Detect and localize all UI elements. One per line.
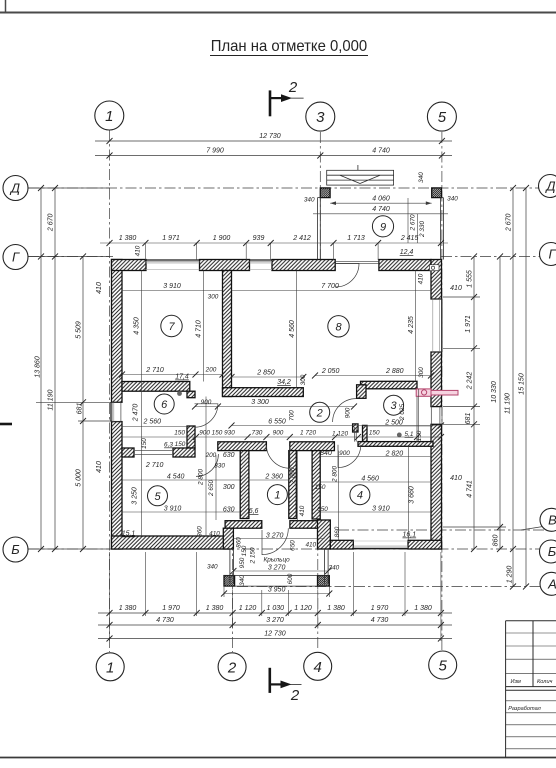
bay jog left xyxy=(223,528,233,549)
svg-text:300: 300 xyxy=(208,294,219,301)
svg-text:3 950: 3 950 xyxy=(268,587,286,594)
svg-text:6,3: 6,3 xyxy=(164,442,173,449)
svg-text:410: 410 xyxy=(96,461,103,473)
svg-text:900: 900 xyxy=(345,407,352,418)
svg-text:5: 5 xyxy=(439,658,448,675)
svg-text:200: 200 xyxy=(205,367,217,374)
svg-text:15,1: 15,1 xyxy=(122,531,136,538)
porch 4060 dim xyxy=(330,202,432,204)
svg-text:410: 410 xyxy=(418,273,425,284)
room8 dim row 2050-2880 xyxy=(315,375,431,377)
drain dot room3 xyxy=(397,433,402,438)
svg-text:840: 840 xyxy=(320,450,332,457)
leader for axis V right xyxy=(521,527,543,531)
svg-text:600: 600 xyxy=(287,573,294,584)
axis circle G right xyxy=(540,243,556,266)
room1 dim 2360 xyxy=(249,479,289,481)
svg-text:Д: Д xyxy=(9,181,20,196)
axis circle 5 top xyxy=(427,102,456,131)
hall bottom wall right segment xyxy=(290,442,335,451)
axis 2 vertical xyxy=(232,520,234,652)
bay wall right of door xyxy=(290,521,330,529)
svg-text:1 120: 1 120 xyxy=(294,605,312,612)
svg-text:681: 681 xyxy=(77,403,84,415)
svg-text:1 120: 1 120 xyxy=(239,605,257,612)
svg-text:2: 2 xyxy=(316,407,323,419)
axis 4 vertical xyxy=(317,520,319,651)
door hall to room6 xyxy=(195,404,218,427)
axis A horizontal xyxy=(237,586,545,588)
svg-text:7 700: 7 700 xyxy=(321,283,339,290)
svg-text:5 000: 5 000 xyxy=(76,469,83,487)
svg-text:3: 3 xyxy=(316,109,325,126)
svg-text:340: 340 xyxy=(418,172,425,183)
room7 dim 3910 xyxy=(122,290,223,292)
svg-text:1: 1 xyxy=(106,659,114,676)
svg-text:1 970: 1 970 xyxy=(371,605,389,612)
porch bottom dim 3950 xyxy=(224,593,329,595)
interior wall room6 right upper xyxy=(187,391,195,398)
bay wall left of door xyxy=(225,521,262,529)
svg-text:900: 900 xyxy=(273,430,284,437)
wall rooms 8|3 xyxy=(361,381,418,389)
door porch to room8 xyxy=(336,264,360,288)
svg-text:1 380: 1 380 xyxy=(414,605,432,612)
room8 dim 7700 xyxy=(232,290,432,292)
svg-text:630: 630 xyxy=(223,452,235,459)
vent box room8 corner xyxy=(430,265,440,271)
porch column top right xyxy=(432,188,442,198)
svg-text:Крыльцо: Крыльцо xyxy=(263,557,290,564)
svg-text:4 060: 4 060 xyxy=(372,196,390,203)
axis B horizontal xyxy=(28,548,545,550)
svg-text:200: 200 xyxy=(205,452,217,459)
outer wall right mid xyxy=(431,352,442,407)
svg-text:2 850: 2 850 xyxy=(256,370,275,377)
bay jog right xyxy=(318,520,331,549)
room1 dim 3270 xyxy=(233,538,324,540)
interior wall room6 right lower xyxy=(187,426,195,448)
svg-text:340: 340 xyxy=(447,196,458,203)
svg-text:3: 3 xyxy=(391,400,398,412)
shaft room3 right xyxy=(416,389,418,442)
drain dot room6 xyxy=(177,391,182,396)
svg-text:410: 410 xyxy=(209,531,220,538)
svg-text:150: 150 xyxy=(315,484,326,491)
room4 dim 3910 xyxy=(320,511,431,513)
svg-text:340: 340 xyxy=(329,565,340,572)
svg-text:1 970: 1 970 xyxy=(162,605,180,612)
svg-text:4 740: 4 740 xyxy=(372,148,390,155)
svg-text:7: 7 xyxy=(168,321,175,333)
svg-text:2 560: 2 560 xyxy=(143,419,162,426)
room3 left wall thin xyxy=(354,427,356,442)
svg-text:2 470: 2 470 xyxy=(133,404,140,423)
outer wall right lower xyxy=(431,424,442,549)
door hall to room1 xyxy=(266,445,289,468)
room4 left wall xyxy=(312,451,320,519)
outer wall top segment A xyxy=(112,260,147,271)
axis circle B left xyxy=(3,537,28,562)
extension lines bottom rows xyxy=(144,552,146,616)
svg-text:340: 340 xyxy=(207,564,218,571)
opening rooms 6|5 xyxy=(134,450,173,452)
porch right wall bottom xyxy=(324,549,326,584)
svg-text:300: 300 xyxy=(418,367,425,378)
svg-text:3 270: 3 270 xyxy=(268,565,286,572)
mid dim row 900 150 930 ... xyxy=(122,436,441,438)
room6 dim 2560 xyxy=(122,426,187,428)
extension lines top row xyxy=(144,243,146,260)
axis circle D left xyxy=(3,176,28,201)
svg-text:1 900: 1 900 xyxy=(213,235,231,242)
room3 vertical dim xyxy=(418,389,420,442)
window top wall 2 xyxy=(250,259,273,261)
svg-text:950: 950 xyxy=(239,557,246,568)
svg-text:11 190: 11 190 xyxy=(48,389,55,410)
room5 dim 3910 xyxy=(122,511,240,513)
svg-text:630: 630 xyxy=(223,507,235,514)
svg-text:900: 900 xyxy=(339,450,350,457)
svg-text:Г: Г xyxy=(548,247,556,262)
svg-text:12,4: 12,4 xyxy=(400,249,414,256)
svg-text:2 025: 2 025 xyxy=(399,404,406,421)
svg-text:2 710: 2 710 xyxy=(145,462,164,469)
svg-text:300: 300 xyxy=(300,374,307,385)
svg-text:4 741: 4 741 xyxy=(467,480,474,498)
svg-text:6 550: 6 550 xyxy=(268,419,286,426)
page left corner tick xyxy=(5,0,7,13)
room8 vertical dim 4235 xyxy=(415,271,417,382)
svg-text:340: 340 xyxy=(304,197,315,204)
interior wall rooms 7|6 xyxy=(122,382,190,392)
svg-text:3 270: 3 270 xyxy=(266,617,284,624)
window top wall 1 xyxy=(146,259,200,261)
svg-text:4 730: 4 730 xyxy=(371,617,389,624)
window right wall xyxy=(432,299,434,352)
outer wall left upper xyxy=(112,260,123,403)
axis circle 2 bottom xyxy=(218,653,246,681)
page bottom border xyxy=(0,757,556,759)
window bottom wall xyxy=(353,540,408,542)
svg-text:3 270: 3 270 xyxy=(266,533,284,540)
svg-text:Д: Д xyxy=(544,179,555,194)
outer wall top segment D xyxy=(379,260,431,271)
svg-text:2 330: 2 330 xyxy=(419,221,426,238)
svg-text:1: 1 xyxy=(105,108,113,125)
axis circle 3 top xyxy=(306,102,335,131)
axis circle A right xyxy=(540,572,556,595)
svg-text:2 800: 2 800 xyxy=(290,467,297,484)
svg-text:2 800: 2 800 xyxy=(332,466,339,483)
svg-text:11 190: 11 190 xyxy=(505,393,512,414)
porch post bottom left xyxy=(224,576,235,587)
svg-text:2 820: 2 820 xyxy=(385,451,404,458)
svg-text:2 050: 2 050 xyxy=(321,368,340,375)
dim line 12730 top xyxy=(95,140,452,142)
dim line 7990 / 4740 top xyxy=(95,155,452,157)
outer wall right upper xyxy=(431,260,442,300)
hall dim 6550 xyxy=(232,425,442,427)
dim row2 bottom xyxy=(98,624,452,626)
axis circle 5 bottom xyxy=(429,651,457,679)
svg-text:4 540: 4 540 xyxy=(167,474,185,481)
porch post bottom right xyxy=(318,576,330,587)
porch bottom edge xyxy=(224,585,329,587)
outer wall bottom right segment 1 xyxy=(330,540,353,549)
svg-text:1: 1 xyxy=(274,490,280,502)
svg-text:Г: Г xyxy=(12,250,20,265)
room vertical dim 4710 xyxy=(203,271,205,382)
room1 left wall xyxy=(240,451,249,519)
svg-text:17,4: 17,4 xyxy=(175,374,189,381)
svg-text:1 290: 1 290 xyxy=(507,566,514,584)
hall bottom wall left segment xyxy=(218,442,267,451)
svg-text:Б: Б xyxy=(548,544,556,559)
door room1 to porch xyxy=(262,528,288,554)
svg-text:3 910: 3 910 xyxy=(164,506,182,513)
room vertical dim left col xyxy=(141,271,143,537)
interior wall rooms 6|5 segment right xyxy=(173,448,195,457)
svg-text:2 710: 2 710 xyxy=(145,367,164,374)
room8 vertical dim 4560 xyxy=(296,271,298,388)
svg-text:1 971: 1 971 xyxy=(465,315,472,333)
axis circle 4 bottom xyxy=(304,652,332,680)
svg-text:4 560: 4 560 xyxy=(361,476,379,483)
svg-text:12 730: 12 730 xyxy=(259,133,281,140)
svg-text:2 670: 2 670 xyxy=(410,214,417,231)
svg-text:12 730: 12 730 xyxy=(264,631,286,638)
svg-text:1 380: 1 380 xyxy=(206,605,224,612)
svg-text:150: 150 xyxy=(416,430,423,441)
porch left wall xyxy=(317,198,319,260)
svg-text:4 560: 4 560 xyxy=(289,320,296,338)
steps arrow xyxy=(340,175,360,183)
svg-text:2 670: 2 670 xyxy=(506,213,513,232)
porch bottom dim 3270 xyxy=(233,570,328,572)
svg-text:1 720: 1 720 xyxy=(300,430,316,437)
door hall to room4 xyxy=(338,445,361,468)
porch column top left xyxy=(320,188,330,198)
top small dim row xyxy=(100,242,448,244)
svg-text:План на отметке 0,000: План на отметке 0,000 xyxy=(211,38,367,56)
room4 vertical dims xyxy=(338,451,340,540)
svg-text:1 380: 1 380 xyxy=(327,605,345,612)
axis G horizontal right xyxy=(441,256,545,258)
svg-text:2 880: 2 880 xyxy=(385,368,404,375)
hall dim 900/3300 xyxy=(195,406,354,408)
svg-text:5: 5 xyxy=(438,109,447,126)
axis circle 1 top xyxy=(95,101,124,130)
svg-text:150: 150 xyxy=(241,545,248,556)
room1 vertical dim 2800 xyxy=(297,451,299,521)
room5 vertical dims xyxy=(205,397,207,537)
svg-text:2 415: 2 415 xyxy=(400,235,419,242)
room5 dim 4540 xyxy=(122,479,240,481)
room4 dim row 840-900-2820 xyxy=(320,456,431,458)
svg-text:4: 4 xyxy=(357,490,363,502)
axis 3 vertical xyxy=(319,132,321,262)
door hall to room5 xyxy=(196,454,218,476)
svg-text:5,1: 5,1 xyxy=(405,431,414,438)
svg-text:1 971: 1 971 xyxy=(162,235,180,242)
page top border xyxy=(0,12,556,14)
outer wall top segment C xyxy=(272,260,335,271)
svg-text:2: 2 xyxy=(290,687,300,704)
axis G horizontal left xyxy=(28,256,113,258)
pink radiator marker xyxy=(416,389,431,396)
svg-text:1 555: 1 555 xyxy=(467,270,474,288)
outer wall top segment B xyxy=(200,260,250,271)
wall rooms 3|4 thin xyxy=(358,442,433,447)
dim row1 bottom xyxy=(98,612,452,614)
section mark 2 bottom xyxy=(270,668,302,693)
room3 door jamb corner xyxy=(357,385,366,399)
svg-text:650: 650 xyxy=(317,506,328,513)
svg-text:Разработал: Разработал xyxy=(508,706,541,712)
title underline xyxy=(210,55,368,57)
outer wall bottom right segment 2 xyxy=(408,540,442,549)
svg-text:860: 860 xyxy=(334,526,341,537)
axis 5 vertical xyxy=(441,132,443,650)
svg-text:13 860: 13 860 xyxy=(35,356,42,378)
svg-text:Б: Б xyxy=(11,542,20,557)
svg-text:2 150: 2 150 xyxy=(250,547,257,564)
svg-text:2 670: 2 670 xyxy=(48,213,55,232)
outer wall left lower xyxy=(112,422,123,549)
svg-text:6,6: 6,6 xyxy=(249,508,259,515)
svg-text:В: В xyxy=(548,512,556,527)
room3 dim 2500 xyxy=(363,425,431,427)
svg-text:340: 340 xyxy=(239,575,246,586)
axis circle V right xyxy=(540,508,556,531)
svg-text:2: 2 xyxy=(227,659,237,676)
svg-text:1 380: 1 380 xyxy=(119,235,137,242)
section mark 2 top xyxy=(270,90,304,116)
room3 shower jamb xyxy=(363,425,368,441)
svg-text:681: 681 xyxy=(465,413,472,425)
porch right wall xyxy=(440,198,442,260)
svg-text:2 360: 2 360 xyxy=(264,474,283,481)
axis D horizontal xyxy=(28,187,545,189)
svg-text:3 660: 3 660 xyxy=(409,486,416,504)
svg-text:150: 150 xyxy=(369,430,380,437)
room3 lower jamb xyxy=(353,424,358,432)
svg-text:4: 4 xyxy=(314,659,322,676)
svg-text:730: 730 xyxy=(252,430,263,437)
svg-text:1 713: 1 713 xyxy=(347,235,365,242)
outer wall bottom left xyxy=(112,536,230,549)
svg-text:Изм: Изм xyxy=(511,679,522,685)
window left wall xyxy=(110,402,112,421)
svg-text:860: 860 xyxy=(493,535,500,547)
svg-text:410: 410 xyxy=(96,282,103,294)
room4 dim 4560 xyxy=(320,481,431,483)
svg-text:4 730: 4 730 xyxy=(156,617,174,624)
svg-text:4 350: 4 350 xyxy=(134,317,141,335)
window right wall lower opening xyxy=(439,407,441,425)
svg-text:4 710: 4 710 xyxy=(196,320,203,338)
svg-text:300: 300 xyxy=(223,484,235,491)
svg-text:900: 900 xyxy=(201,399,212,406)
svg-text:1 380: 1 380 xyxy=(119,605,137,612)
svg-text:3 910: 3 910 xyxy=(163,283,181,290)
svg-text:А: А xyxy=(547,576,556,591)
left edge mark xyxy=(0,423,12,426)
porch inner vertical dim xyxy=(407,198,409,243)
axis circle D right xyxy=(539,175,556,198)
room1 right wall xyxy=(289,451,297,519)
svg-text:34,2: 34,2 xyxy=(277,379,291,386)
svg-text:2 800: 2 800 xyxy=(198,469,205,486)
porch left wall bottom xyxy=(229,549,231,584)
svg-text:1 120: 1 120 xyxy=(332,431,348,438)
svg-text:410: 410 xyxy=(299,505,306,516)
dim row3 bottom 12730 xyxy=(98,638,452,640)
dimension arrows porch 4060 xyxy=(330,201,336,205)
svg-text:410: 410 xyxy=(135,245,142,256)
svg-text:2 242: 2 242 xyxy=(467,372,474,391)
axis B(V) horizontal xyxy=(338,529,545,531)
svg-text:16,1: 16,1 xyxy=(402,532,416,539)
svg-text:Колич: Колич xyxy=(537,679,553,685)
svg-text:900 150 930: 900 150 930 xyxy=(199,430,235,437)
svg-text:700: 700 xyxy=(289,410,296,421)
svg-text:830: 830 xyxy=(214,463,225,470)
svg-text:6: 6 xyxy=(161,399,168,411)
svg-text:150: 150 xyxy=(174,430,185,437)
svg-text:4 235: 4 235 xyxy=(408,316,415,334)
svg-text:8: 8 xyxy=(335,321,342,333)
room7/8 dim row 2710 xyxy=(122,374,223,376)
svg-text:5 509: 5 509 xyxy=(76,321,83,339)
svg-text:3 910: 3 910 xyxy=(372,506,390,513)
svg-text:650: 650 xyxy=(290,540,297,551)
door room2 to room3 xyxy=(333,399,356,422)
axis circle 1 bottom xyxy=(96,653,124,681)
svg-text:4 740: 4 740 xyxy=(372,206,390,213)
svg-text:860: 860 xyxy=(197,526,204,537)
svg-text:410: 410 xyxy=(305,542,316,549)
interior wall hall top xyxy=(223,388,304,397)
svg-text:7 990: 7 990 xyxy=(206,148,224,155)
porch 4740 dim xyxy=(313,213,448,215)
axis 1 vertical xyxy=(109,130,111,652)
svg-text:2 650: 2 650 xyxy=(208,480,215,497)
interior wall axis2 rooms 7|8 xyxy=(223,271,232,397)
svg-text:9: 9 xyxy=(380,221,386,233)
axis circle G left xyxy=(3,245,28,270)
svg-text:410: 410 xyxy=(450,475,462,482)
svg-text:939: 939 xyxy=(253,235,265,242)
svg-text:3 300: 3 300 xyxy=(251,399,269,406)
svg-text:5: 5 xyxy=(154,491,161,503)
svg-text:150: 150 xyxy=(175,441,186,448)
svg-text:1 030: 1 030 xyxy=(267,605,285,612)
svg-text:410: 410 xyxy=(450,285,462,292)
svg-text:15 150: 15 150 xyxy=(519,373,526,395)
svg-text:2 412: 2 412 xyxy=(292,235,311,242)
svg-text:2: 2 xyxy=(288,79,298,96)
axis circle B right xyxy=(540,540,556,563)
porch steps box xyxy=(327,170,394,185)
interior wall rooms 6|5 segment left xyxy=(122,448,134,457)
svg-text:3 250: 3 250 xyxy=(132,487,139,505)
svg-text:150: 150 xyxy=(141,438,148,449)
svg-text:10 330: 10 330 xyxy=(491,381,498,403)
room8 dim row 2850 xyxy=(232,376,304,378)
